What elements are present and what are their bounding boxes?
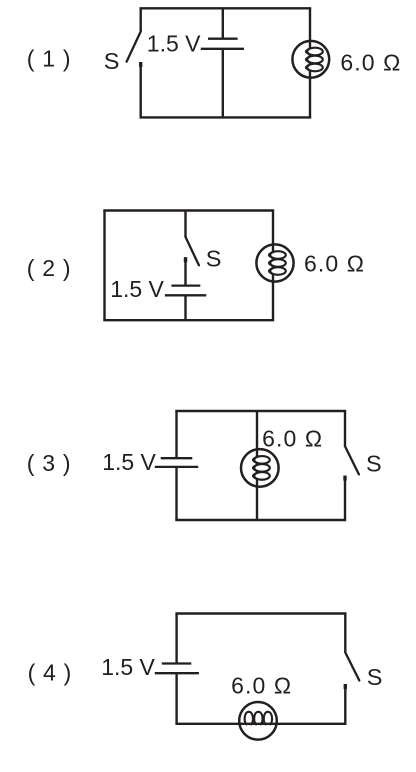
wire: circuit 2 top rail — [103, 209, 274, 211]
switch S (circuit 4, right branch) — [345, 614, 359, 724]
svg-text:( 4 ): ( 4 ) — [28, 660, 72, 686]
lamp 6.0 ohm (circuit 1, right branch) — [292, 8, 329, 117]
label S (circuit 3) — [366, 450, 382, 476]
label 1.5 V (circuit 2) — [110, 276, 164, 302]
label (4) — [28, 660, 72, 686]
svg-text:6.0 Ω: 6.0 Ω — [304, 250, 365, 276]
label 6.0 ohm (circuit 2) — [304, 250, 365, 276]
label S (circuit 2) — [206, 246, 222, 272]
wire: circuit 2 bottom rail — [103, 319, 274, 321]
svg-text:6.0 Ω: 6.0 Ω — [340, 49, 401, 75]
battery 1.5 V (circuit 2, middle branch) — [165, 286, 206, 321]
label 6.0 ohm (circuit 4) — [231, 673, 292, 699]
label (2) — [27, 255, 71, 281]
label 1.5 V (circuit 4) — [101, 654, 155, 680]
svg-text:( 3 ): ( 3 ) — [27, 450, 71, 476]
label S (circuit 1) — [104, 48, 120, 74]
wire: circuit 3 top rail — [175, 410, 346, 412]
battery 1.5 V (circuit 1, middle branch) — [201, 8, 244, 117]
lamp 6.0 ohm (circuit 4, bottom branch) — [175, 702, 346, 740]
switch S (circuit 2, middle branch) — [186, 211, 199, 286]
wire: circuit 4 top rail — [175, 612, 346, 614]
svg-text:S: S — [366, 450, 382, 476]
svg-text:( 1 ): ( 1 ) — [27, 46, 71, 72]
label 6.0 ohm (circuit 3) — [262, 425, 323, 451]
wire: circuit 3 bottom rail — [175, 519, 346, 521]
lamp 6.0 ohm (circuit 2, right branch) — [256, 211, 293, 321]
svg-text:( 2 ): ( 2 ) — [27, 255, 71, 281]
switch S (circuit 3, right branch) — [345, 411, 359, 520]
svg-text:1.5 V: 1.5 V — [110, 276, 164, 302]
svg-text:1.5 V: 1.5 V — [102, 449, 156, 475]
svg-text:1.5 V: 1.5 V — [147, 30, 201, 56]
label 1.5 V (circuit 3) — [102, 449, 156, 475]
svg-text:1.5 V: 1.5 V — [101, 654, 155, 680]
wire: circuit 2 left side — [103, 211, 105, 321]
label S (circuit 4) — [367, 664, 383, 690]
label 1.5 V (circuit 1) — [147, 30, 201, 56]
label (1) — [27, 46, 71, 72]
svg-text:S: S — [104, 48, 120, 74]
battery 1.5 V (circuit 3, left branch) — [155, 411, 198, 520]
wire: circuit 1 top rail — [140, 7, 312, 9]
svg-text:S: S — [367, 664, 383, 690]
svg-text:6.0 Ω: 6.0 Ω — [231, 673, 292, 699]
lamp 6.0 ohm (circuit 3, middle branch) — [241, 411, 279, 520]
svg-text:S: S — [206, 246, 222, 272]
svg-text:6.0 Ω: 6.0 Ω — [262, 425, 323, 451]
wire: circuit 1 bottom rail — [140, 116, 312, 118]
label (3) — [27, 450, 71, 476]
battery 1.5 V (circuit 4, left branch) — [155, 614, 199, 724]
label 6.0 ohm (circuit 1) — [340, 49, 401, 75]
switch S (circuit 1, left branch) — [127, 8, 141, 117]
